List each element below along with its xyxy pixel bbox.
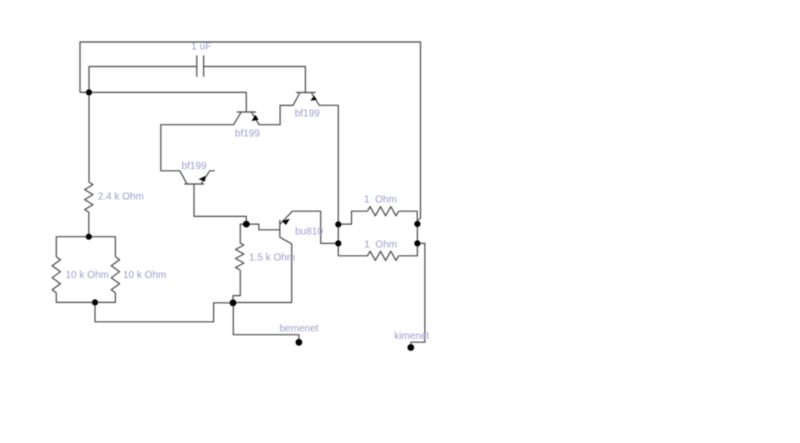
- svg-text:bf199: bf199: [182, 161, 207, 172]
- svg-text:1 uF: 1 uF: [191, 42, 211, 53]
- svg-text:10 k Ohm: 10 k Ohm: [66, 270, 109, 281]
- svg-text:10 k Ohm: 10 k Ohm: [123, 270, 166, 281]
- svg-text:1.5 k Ohm: 1.5 k Ohm: [249, 252, 295, 263]
- svg-text:bu810: bu810: [295, 227, 323, 238]
- svg-text:bf199: bf199: [295, 108, 320, 119]
- svg-text:1 Ohm: 1 Ohm: [364, 195, 397, 206]
- svg-text:kimenet: kimenet: [394, 331, 429, 342]
- svg-text:2.4 k Ohm: 2.4 k Ohm: [98, 192, 144, 203]
- svg-text:bemenet: bemenet: [280, 324, 319, 335]
- svg-text:1 Ohm: 1 Ohm: [364, 239, 397, 250]
- svg-text:bf199: bf199: [235, 129, 260, 140]
